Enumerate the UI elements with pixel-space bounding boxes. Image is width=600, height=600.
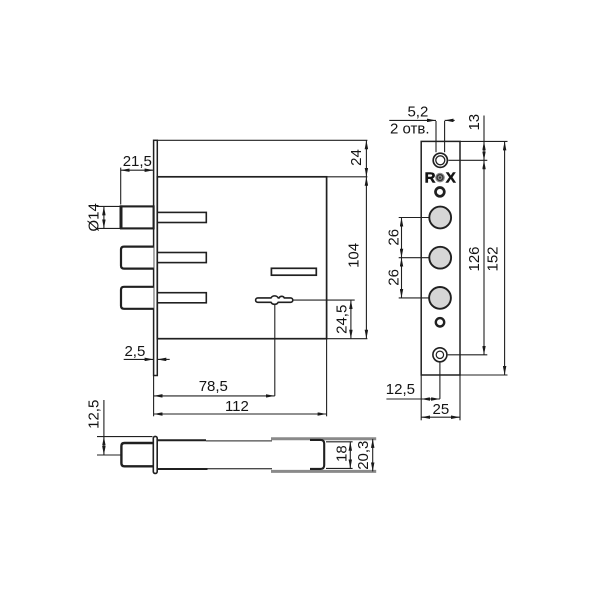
body bottom edge thick part (157, 468, 207, 470)
svg-text:18: 18 (333, 445, 350, 462)
ROX logo (425, 169, 456, 186)
dim 5,2 (outside arrows) (389, 119, 436, 121)
dim Ø14 (103, 206, 105, 228)
lock body rectangle (157, 177, 326, 339)
svg-text:24,5: 24,5 (333, 305, 350, 334)
dim 12,5 vertical (103, 437, 105, 455)
12,5 extension bolt centre (97, 454, 121, 456)
dim 20,3 (372, 439, 374, 472)
screw hole top inner ring (436, 156, 445, 165)
svg-text:2 отв.: 2 отв. (390, 120, 430, 137)
extension body right edge down (326, 339, 328, 417)
svg-text:12,5: 12,5 (386, 381, 415, 398)
svg-text:5,2: 5,2 (407, 103, 428, 120)
Ø14 extension lines (97, 205, 122, 207)
dim 13 (483, 141, 485, 160)
screw hole bottom inner ring (436, 351, 443, 358)
extension body bottom right (327, 338, 368, 340)
plate bottom extension right (460, 374, 508, 376)
dim 126 (483, 160, 485, 354)
bolt tail 3 (157, 293, 206, 303)
logo emblem disc (435, 173, 445, 183)
bolt 2 (rounded left corners) (121, 247, 154, 269)
bolt tail 2 (157, 253, 206, 263)
screw hole bottom outer (433, 348, 447, 362)
dim 104 (365, 177, 367, 339)
key profile element (256, 296, 293, 304)
extension faceplate left edge down (153, 376, 155, 417)
dim 12,5 (421, 398, 440, 400)
faceplate front view plate (421, 141, 460, 375)
dim 26 upper (401, 218, 403, 258)
screw1 centre extension right (448, 159, 487, 161)
screw hole top outer (433, 153, 447, 167)
svg-text:25: 25 (433, 401, 450, 418)
dim 78,5 (154, 395, 275, 397)
screw2 extension down (439, 362, 441, 399)
dim 152 (504, 141, 506, 375)
gray cover top edge (271, 437, 376, 440)
key hole circle 2 (429, 247, 451, 269)
svg-text:Ø14: Ø14 (85, 203, 102, 231)
bottom view labels (86, 400, 373, 470)
faceplate bar (bottom view) (153, 436, 157, 473)
extension body top right (327, 176, 368, 178)
bolt (bottom view) (121, 443, 152, 466)
dim 13 overshoot (483, 116, 485, 142)
key hole circle 1 (429, 207, 451, 229)
dim 21,5 (121, 169, 154, 171)
svg-text:24: 24 (348, 149, 365, 166)
gray cover bottom edge (271, 470, 376, 473)
body right end cap (310, 440, 324, 469)
bolt tail 1 (157, 212, 206, 222)
svg-text:21,5: 21,5 (123, 153, 152, 170)
small ring lower (436, 318, 444, 326)
5,2 extension lines (435, 121, 437, 152)
slot rectangle (lever window) (271, 268, 316, 275)
dim 24 (365, 140, 367, 177)
screw2 centre extension right (448, 354, 488, 356)
circle centre extension lines left (399, 217, 430, 219)
key hole circle 3 (429, 287, 451, 309)
extension from key element to right (293, 299, 355, 301)
extension line from faceplate top to the 24-dim (157, 139, 367, 141)
plate right edge extension down (459, 375, 461, 420)
body top edge thin part (206, 440, 272, 442)
svg-text:12,5: 12,5 (86, 400, 103, 429)
svg-text:X: X (446, 169, 456, 186)
dim 18 (349, 442, 351, 469)
dim 112 (154, 413, 327, 415)
faceplate (side view, vertical strip) (154, 140, 158, 375)
extension from bolt1 left edge up (120, 168, 122, 205)
dim 25 (421, 416, 460, 418)
plate top extension right (460, 140, 508, 142)
dim 12,5 overshoot (386, 398, 421, 400)
dim 12,5 overshoot up (103, 400, 105, 437)
18 extension lines (326, 441, 353, 443)
12,5 extension top (97, 436, 153, 438)
vertical line from key element centre down (274, 304, 276, 396)
dim 24,5 (350, 300, 352, 339)
svg-text:126: 126 (466, 246, 483, 271)
svg-text:2,5: 2,5 (124, 343, 145, 360)
dim 2,5 (outside arrows) (124, 358, 154, 360)
bolt 1 (top, square corners) (121, 206, 154, 228)
svg-text:104: 104 (345, 243, 362, 268)
svg-text:26: 26 (386, 229, 403, 246)
svg-text:112: 112 (225, 398, 249, 415)
svg-text:26: 26 (386, 269, 403, 286)
body bottom edge thin part (208, 468, 273, 470)
bolt 3 (rounded left corners) (121, 287, 154, 309)
small ring below logo (436, 188, 445, 197)
body top edge thick part (157, 439, 206, 441)
svg-text:152: 152 (484, 246, 501, 271)
dim 26 lower (401, 258, 403, 298)
svg-text:20,3: 20,3 (355, 441, 372, 470)
plate left edge extension down (420, 375, 422, 420)
main view labels (85, 149, 365, 415)
svg-text:R: R (425, 169, 436, 186)
right view labels (386, 103, 502, 418)
svg-text:78,5: 78,5 (199, 378, 228, 395)
svg-text:13: 13 (466, 114, 483, 131)
